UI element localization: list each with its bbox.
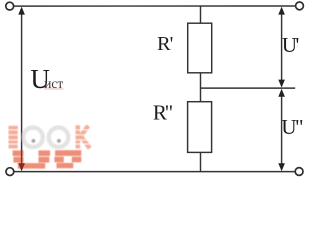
voltage arrow line Uист (left) [21,13,23,166]
arrowhead up of Uист [18,7,25,15]
watermark letter B [9,126,18,149]
svg-text:ист: ист [44,76,63,91]
resistor R' body [188,23,212,73]
watermark letter P of UP [54,150,81,168]
arrowhead up of U' [278,7,285,15]
wire: node tap line from divider midpoint to the right [201,87,296,89]
watermark letter K [78,125,90,148]
wire: stub from R'' to bottom wire [200,152,202,171]
terminal bottom-left [6,168,14,176]
terminal bottom-right [295,168,303,176]
voltage arrow line U'' (right lower) [281,94,283,166]
svg-text:U': U' [282,33,299,57]
wire bottom: from left terminal to right terminal [14,171,295,173]
watermark letter O2 ring [49,128,69,148]
svg-text:R": R" [153,101,173,125]
wire: branch stub from top wire to R' [200,6,202,23]
arrowhead down of U' [278,80,285,88]
watermark O1 dot [32,139,36,143]
watermark letter O1 ring [23,128,43,148]
svg-text:U": U" [281,115,303,139]
terminal top-right [296,2,304,10]
arrowhead down of Uист [18,163,25,171]
resistor R'' body [188,102,212,153]
wire: stub between R' and R'' through node [200,73,202,102]
wire top: from left terminal to right terminal [14,5,295,7]
watermark O2 dot [57,139,61,143]
watermark BOOKUP logo (semi-transparent, over the drawing) [9,125,90,168]
arrowhead up of U'' [278,89,285,97]
svg-text:R': R' [157,33,173,55]
watermark letter U of UP [13,150,50,168]
arrowhead down of U'' [278,163,285,171]
terminal top-left [6,2,14,10]
voltage arrow line U' (right upper) [281,13,283,83]
